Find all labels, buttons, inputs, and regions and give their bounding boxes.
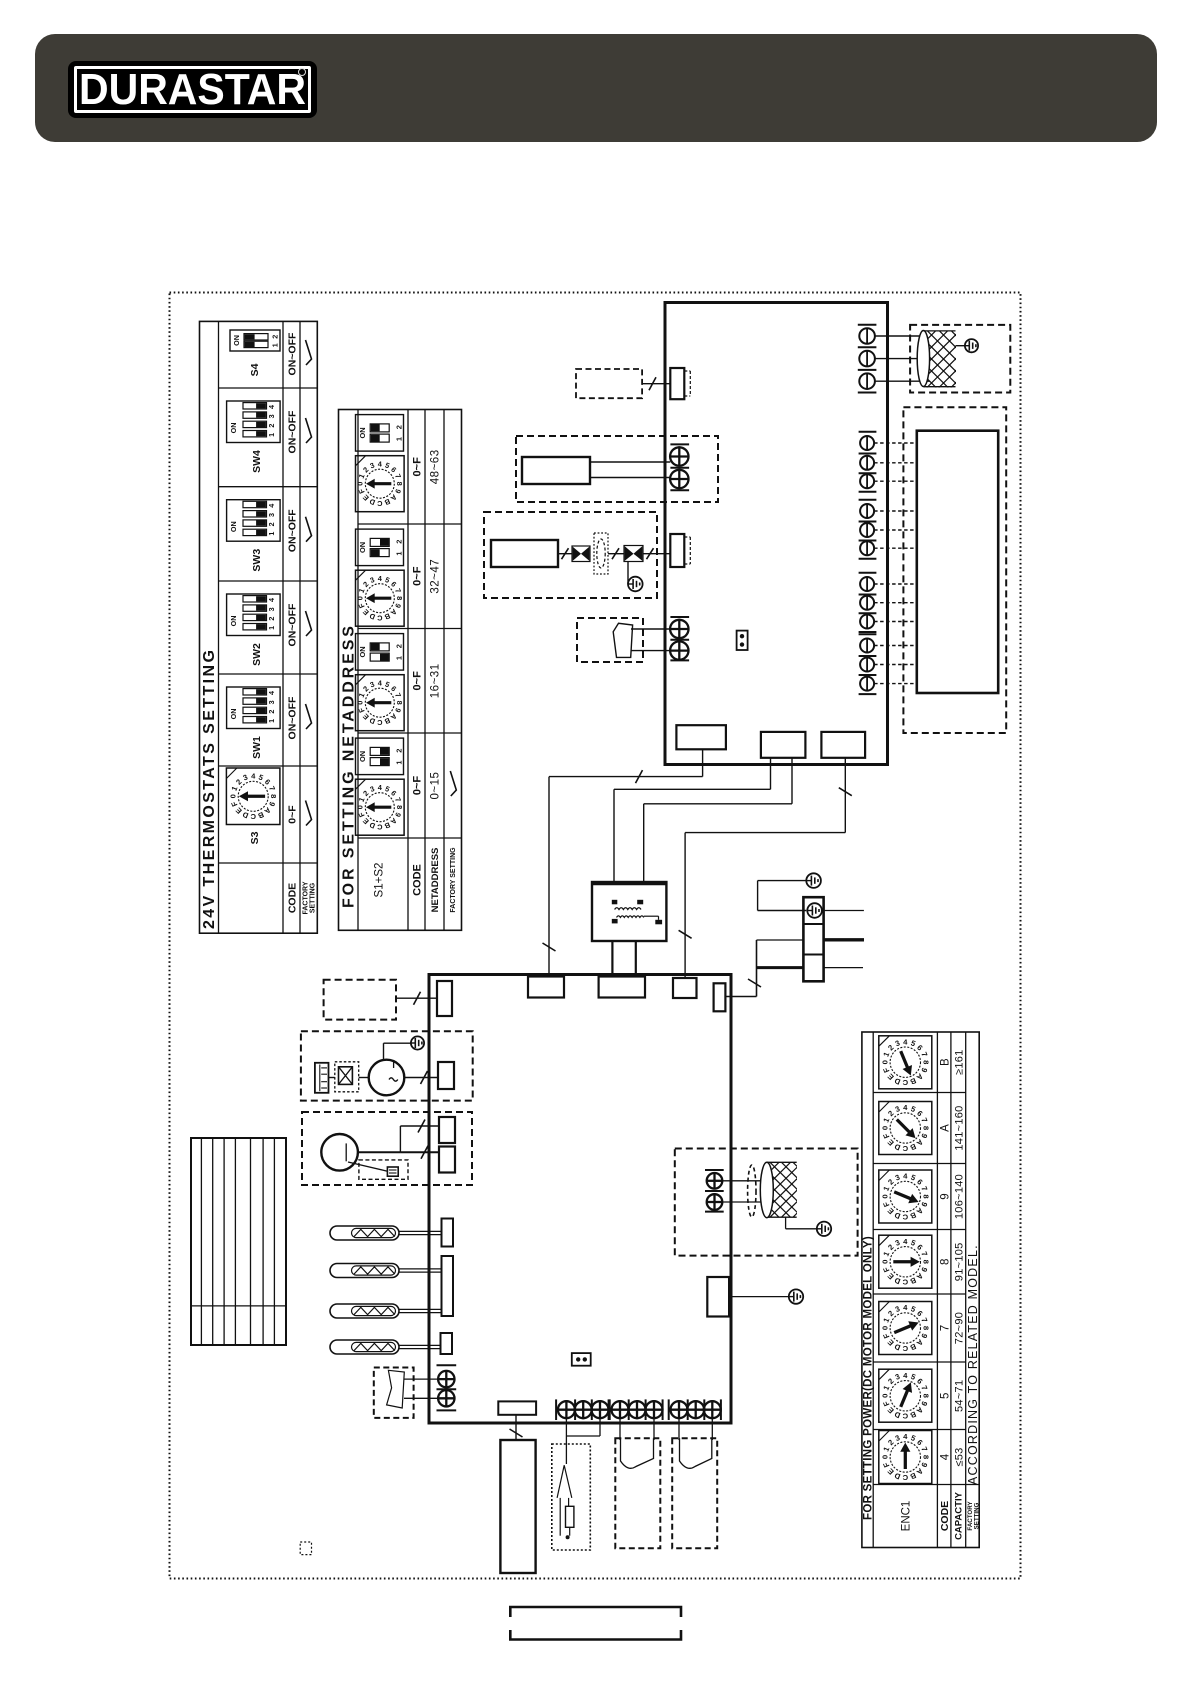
wire (515, 1415, 517, 1440)
svg-text:8: 8 (921, 1194, 930, 1199)
wire to CN1 (642, 383, 670, 385)
svg-text:3: 3 (894, 1372, 901, 1382)
wire W2 (770, 758, 772, 790)
dip switch SW1 (227, 687, 281, 729)
svg-text:8: 8 (921, 1060, 930, 1065)
svg-text:5: 5 (384, 784, 391, 794)
terminal pair (437, 1364, 457, 1366)
svg-text:0: 0 (356, 805, 365, 809)
svg-text:ON: ON (232, 335, 241, 346)
svg-text:8: 8 (395, 701, 404, 705)
svg-text:1: 1 (270, 343, 279, 347)
ground G5 (411, 1036, 424, 1049)
svg-text:CODE: CODE (412, 864, 424, 896)
svg-text:S3: S3 (249, 831, 261, 844)
compressor terminal box (335, 1062, 359, 1092)
svg-text:2: 2 (395, 644, 404, 648)
svg-text:1: 1 (267, 626, 276, 630)
dotted capsule (594, 533, 608, 574)
svg-text:6: 6 (389, 465, 398, 474)
wire with bundle marks (558, 553, 572, 555)
fan ground wire (956, 345, 965, 347)
svg-text:8: 8 (921, 1126, 930, 1131)
rotary switch ENC1 code 7 (879, 1302, 932, 1355)
svg-text:2: 2 (234, 777, 243, 786)
svg-text:S4: S4 (249, 363, 261, 376)
svg-text:2: 2 (886, 1109, 895, 1118)
svg-text:54~71: 54~71 (953, 1380, 965, 1412)
svg-text:C: C (902, 1212, 908, 1221)
wires (404, 1378, 439, 1380)
svg-text:ON: ON (229, 709, 238, 720)
svg-text:F: F (881, 1200, 891, 1208)
svg-text:B: B (908, 1471, 917, 1482)
discharge sensor dashed box (374, 1368, 414, 1418)
outdoor fan dashed box (675, 1149, 858, 1256)
svg-text:7: 7 (919, 1185, 929, 1192)
svg-text:0: 0 (880, 1060, 889, 1064)
svg-text:7: 7 (939, 1325, 951, 1331)
sensor wires group A (565, 1419, 567, 1464)
rotary switch ENC1 code 8 (879, 1235, 932, 1288)
svg-text:3: 3 (894, 1433, 901, 1443)
svg-text:6: 6 (389, 684, 398, 693)
svg-text:6: 6 (915, 1438, 924, 1447)
svg-text:F: F (229, 800, 239, 808)
svg-text:3: 3 (267, 513, 276, 517)
svg-text:7: 7 (393, 473, 403, 480)
indoor fan motor (cylinder) (852, 328, 1059, 391)
svg-text:B: B (908, 1210, 917, 1221)
svg-text:3: 3 (894, 1238, 901, 1248)
svg-text:2: 2 (267, 617, 276, 621)
svg-text:C: C (902, 1473, 908, 1482)
rotary switch S1 for 48~63 (356, 456, 405, 512)
svg-text:CODE: CODE (286, 883, 298, 913)
svg-text:SW4: SW4 (251, 450, 263, 473)
svg-text:1: 1 (267, 719, 276, 723)
svg-text:8: 8 (395, 482, 404, 486)
svg-text:5: 5 (384, 575, 391, 585)
svg-text:ON: ON (358, 646, 367, 657)
cable dashed box (615, 1438, 660, 1548)
PCB2 bottom connector (498, 1401, 536, 1414)
svg-text:B: B (908, 1275, 917, 1286)
svg-text:B: B (383, 497, 391, 507)
svg-text:4: 4 (267, 598, 276, 602)
table: FOR SETTING POWER (ENC1) (862, 1032, 979, 1548)
rotary switch ENC1 code B (879, 1036, 932, 1089)
svg-text:1: 1 (395, 551, 404, 555)
wire (631, 650, 670, 652)
svg-text:3: 3 (369, 680, 376, 690)
svg-text:1: 1 (267, 433, 276, 437)
table: FOR SETTING NETADDRESS (339, 410, 462, 931)
svg-text:0: 0 (880, 1326, 889, 1330)
fan wires (722, 1180, 767, 1182)
wire (608, 553, 624, 555)
svg-text:0: 0 (356, 701, 365, 705)
svg-text:SETTING: SETTING (973, 1502, 980, 1529)
svg-text:0~F: 0~F (412, 566, 424, 586)
svg-text:8: 8 (395, 805, 404, 809)
jumper J1 (737, 631, 748, 650)
svg-text:2: 2 (395, 540, 404, 544)
svg-text:2: 2 (267, 522, 276, 526)
ground G6 (817, 1222, 831, 1236)
header bar (35, 34, 1157, 142)
svg-text:3: 3 (894, 1173, 901, 1183)
connector (438, 1062, 454, 1089)
svg-text:3: 3 (369, 784, 376, 794)
svg-text:0: 0 (356, 482, 365, 486)
svg-text:4: 4 (903, 1371, 908, 1380)
svg-text:6: 6 (263, 777, 272, 786)
svg-text:1: 1 (395, 437, 404, 441)
cable dashed box (672, 1438, 717, 1548)
svg-text:FOR SETTING POWER(DC MOTOR MOD: FOR SETTING POWER(DC MOTOR MODEL ONLY) (863, 1236, 875, 1520)
svg-text:6: 6 (915, 1043, 924, 1052)
svg-text:ON~OFF: ON~OFF (286, 603, 298, 646)
probe (557, 1465, 572, 1498)
svg-text:F: F (881, 1265, 891, 1273)
wires (619, 1419, 621, 1440)
svg-text:0~F: 0~F (286, 805, 298, 824)
svg-text:F: F (881, 1399, 891, 1407)
svg-text:C: C (376, 613, 382, 622)
svg-text:B: B (908, 1342, 917, 1353)
svg-text:8: 8 (921, 1455, 930, 1460)
svg-text:4: 4 (267, 405, 276, 409)
outdoor fan terminals (705, 1169, 724, 1171)
PCB1 indoor control board (665, 303, 888, 765)
svg-text:8: 8 (939, 1259, 951, 1265)
svg-text:48~63: 48~63 (430, 449, 442, 484)
svg-text:ON: ON (229, 423, 238, 434)
PCB2 outdoor control board (429, 975, 731, 1424)
4-way valve dashed box (302, 1112, 472, 1185)
svg-text:0~15: 0~15 (430, 772, 442, 800)
svg-text:1: 1 (395, 760, 404, 764)
svg-text:0: 0 (880, 1194, 889, 1198)
cable flag (680, 1438, 712, 1468)
svg-text:7: 7 (393, 692, 403, 699)
svg-text:7: 7 (919, 1051, 929, 1058)
outer dotted frame (170, 293, 1021, 1579)
svg-text:7: 7 (919, 1445, 929, 1452)
terminal strip block (917, 431, 998, 693)
svg-text:0~F: 0~F (412, 671, 424, 691)
rotary switch ENC1 code 5 (879, 1369, 932, 1422)
svg-text:4: 4 (267, 504, 276, 508)
dip switch S2 for 48~63 (356, 415, 404, 452)
page number brackets (510, 1607, 681, 1617)
DURASTAR logo (68, 61, 317, 118)
svg-text:0: 0 (228, 794, 237, 798)
power terminal block TB (803, 897, 823, 981)
svg-text:B: B (383, 820, 391, 830)
svg-text:16~31: 16~31 (430, 663, 442, 698)
wire (631, 628, 670, 630)
valve wires (358, 1151, 401, 1153)
wire (729, 1296, 789, 1298)
svg-text:1: 1 (267, 532, 276, 536)
dip switch SW3 (227, 500, 281, 542)
svg-text:7: 7 (919, 1116, 929, 1123)
valve V1 (572, 546, 590, 562)
svg-text:6: 6 (915, 1177, 924, 1186)
wire (329, 1077, 335, 1079)
svg-text:3: 3 (267, 700, 276, 704)
svg-text:72~90: 72~90 (953, 1312, 965, 1344)
svg-text:F: F (881, 1332, 891, 1340)
ground G2 (628, 577, 643, 592)
svg-text:B: B (383, 611, 391, 621)
wire (384, 1042, 411, 1044)
wire (590, 461, 670, 463)
svg-text:91~105: 91~105 (953, 1242, 965, 1281)
PCB1 right terminals (859, 432, 917, 694)
jumper J2 (572, 1353, 591, 1366)
svg-text:SW2: SW2 (251, 643, 263, 666)
svg-text:3: 3 (267, 414, 276, 418)
thermistor RT2 (330, 1264, 441, 1278)
wires (678, 1419, 680, 1440)
svg-text:CAPACTIY: CAPACTIY (954, 1491, 965, 1540)
svg-text:6: 6 (915, 1377, 924, 1386)
rotary switch S1 for 32~47 (356, 570, 405, 626)
wire W1 (702, 749, 704, 776)
terminal pair T1/T2 (670, 443, 689, 445)
dashed box valve circuit (484, 512, 657, 598)
svg-text:SW1: SW1 (251, 736, 263, 759)
svg-text:7: 7 (393, 796, 403, 803)
wire to CN2 (643, 553, 670, 555)
svg-text:2: 2 (886, 1243, 895, 1252)
svg-text:ACCORDING TO RELATED MODEL.: ACCORDING TO RELATED MODEL. (966, 1244, 980, 1485)
svg-text:ENC1: ENC1 (900, 1501, 912, 1532)
svg-text:4: 4 (903, 1037, 908, 1046)
svg-text:8: 8 (269, 794, 278, 798)
svg-text:SW3: SW3 (251, 549, 263, 572)
terminal group B (610, 1399, 663, 1420)
rotary switch S1 for 16~31 (356, 675, 405, 731)
wire (590, 477, 670, 479)
svg-text:F: F (881, 1066, 891, 1074)
small dashed box (300, 1542, 311, 1555)
wire W3 (791, 758, 793, 804)
svg-text:4: 4 (939, 1453, 951, 1460)
svg-text:8: 8 (921, 1326, 930, 1331)
svg-text:0: 0 (880, 1126, 889, 1130)
svg-text:106~140: 106~140 (953, 1174, 965, 1219)
wire W4 (844, 758, 846, 833)
terminal strip dashed box (903, 407, 1006, 733)
ground G4 (807, 903, 822, 918)
indoor fan terminals (858, 324, 877, 326)
PCB2 top connectors (528, 977, 564, 998)
compressor motor (369, 1060, 405, 1096)
thermistor RT4 (330, 1340, 441, 1354)
svg-text:0~F: 0~F (412, 457, 424, 477)
svg-text:4: 4 (251, 772, 256, 781)
svg-text:B: B (256, 810, 265, 821)
svg-text:2: 2 (361, 580, 370, 589)
svg-text:5: 5 (939, 1393, 951, 1399)
svg-text:32~47: 32~47 (430, 559, 442, 594)
dip switch S2 for 0~15 (356, 738, 404, 775)
solenoid dashed box (359, 1160, 408, 1179)
terminal group C (669, 1399, 721, 1420)
condenser coil (191, 1138, 286, 1345)
svg-text:1: 1 (395, 656, 404, 660)
svg-text:0: 0 (880, 1455, 889, 1459)
connector CN2 (670, 534, 684, 567)
table: 24V THERMOSTATS SETTING (200, 321, 318, 933)
svg-text:2: 2 (886, 1309, 895, 1318)
svg-text:6: 6 (915, 1243, 924, 1252)
svg-text:8: 8 (921, 1394, 930, 1399)
connectors (439, 1117, 455, 1143)
svg-text:3: 3 (894, 1304, 901, 1314)
svg-text:FACTORY SETTING: FACTORY SETTING (450, 847, 457, 913)
dashed box (comm) (324, 980, 396, 1020)
svg-text:0: 0 (356, 596, 365, 600)
dip switch S4 (230, 330, 280, 351)
dip switch S2 for 16~31 (356, 634, 404, 671)
svg-text:9: 9 (939, 1193, 951, 1199)
compressor plug (315, 1063, 329, 1093)
dip switch SW2 (227, 594, 281, 636)
dip switch S2 for 32~47 (356, 529, 404, 566)
connector CN1 top-left (670, 368, 684, 399)
svg-text:B: B (908, 1142, 917, 1153)
rotary switch ENC1 code A (879, 1102, 932, 1155)
svg-text:4: 4 (378, 678, 383, 687)
svg-text:F: F (881, 1461, 891, 1469)
svg-text:B: B (908, 1409, 917, 1420)
rotary switch S3 (226, 768, 280, 825)
svg-text:ON: ON (358, 542, 367, 553)
svg-text:6: 6 (389, 789, 398, 798)
fan wires (875, 335, 925, 337)
svg-text:F: F (881, 1132, 891, 1140)
svg-text:NETADDRESS: NETADDRESS (430, 848, 441, 913)
svg-text:ON~OFF: ON~OFF (286, 332, 298, 375)
svg-text:6: 6 (915, 1109, 924, 1118)
svg-text:ON: ON (358, 427, 367, 438)
svg-text:≤53: ≤53 (953, 1447, 965, 1466)
svg-text:2: 2 (886, 1177, 895, 1186)
svg-text:ON~OFF: ON~OFF (286, 509, 298, 552)
svg-text:4: 4 (378, 459, 383, 468)
svg-text:8: 8 (395, 596, 404, 600)
svg-text:2: 2 (361, 465, 370, 474)
svg-text:24V THERMOSTATS SETTING: 24V THERMOSTATS SETTING (201, 648, 218, 929)
svg-text:2: 2 (361, 789, 370, 798)
dashed box (room sensor) (576, 369, 642, 398)
thermistor RT1 (330, 1226, 441, 1240)
svg-text:C: C (902, 1078, 908, 1087)
valve coil block (491, 540, 558, 567)
transformer TR1 (592, 882, 666, 977)
svg-text:CODE: CODE (939, 1501, 951, 1531)
svg-text:2: 2 (361, 684, 370, 693)
svg-text:8: 8 (921, 1260, 930, 1265)
fan motor block (522, 457, 590, 484)
svg-text:7: 7 (393, 587, 403, 594)
svg-text:B: B (939, 1058, 951, 1066)
svg-text:2: 2 (267, 424, 276, 428)
svg-text:ON~OFF: ON~OFF (286, 410, 298, 453)
svg-text:SETTING: SETTING (309, 882, 316, 913)
svg-text:≥161: ≥161 (953, 1049, 965, 1075)
4-way valve body (321, 1134, 358, 1171)
svg-text:C: C (376, 822, 382, 831)
svg-text:0~F: 0~F (412, 776, 424, 796)
svg-text:3: 3 (242, 773, 249, 783)
svg-text:C: C (902, 1278, 908, 1287)
svg-text:3: 3 (894, 1038, 901, 1048)
svg-text:ON: ON (229, 616, 238, 627)
svg-text:A: A (939, 1124, 951, 1132)
svg-text:4: 4 (903, 1103, 908, 1112)
svg-text:3: 3 (369, 575, 376, 585)
cable flag (613, 623, 632, 657)
svg-text:7: 7 (267, 785, 277, 792)
dashed box indoor fan motor (516, 436, 718, 502)
ground G1 (965, 339, 978, 352)
thermistor RT3 (330, 1304, 441, 1318)
svg-text:2: 2 (267, 710, 276, 714)
indoor fan dashed box (910, 325, 1010, 393)
svg-text:3: 3 (369, 461, 376, 471)
svg-text:0: 0 (880, 1260, 889, 1264)
rotary switch S1 for 0~15 (356, 779, 405, 835)
svg-text:4: 4 (903, 1237, 908, 1246)
svg-text:2: 2 (886, 1438, 895, 1447)
svg-text:4: 4 (903, 1303, 908, 1312)
svg-text:4: 4 (903, 1432, 908, 1441)
svg-text:2: 2 (270, 335, 279, 339)
power supply block (500, 1440, 535, 1573)
terminal group A (556, 1399, 609, 1420)
connectors on PCB1 bottom (676, 725, 726, 749)
dashed box wired controller (577, 618, 643, 662)
svg-text:7: 7 (919, 1384, 929, 1391)
PCB2 left connector CN (437, 981, 452, 1016)
svg-text:6: 6 (915, 1309, 924, 1318)
outdoor fan motor (698, 1159, 897, 1220)
svg-text:2: 2 (395, 425, 404, 429)
svg-text:2: 2 (395, 749, 404, 753)
ground loop wire (758, 880, 807, 882)
svg-text:C: C (902, 1144, 908, 1153)
cable flag (621, 1438, 654, 1468)
supply wires (824, 910, 864, 912)
svg-text:4: 4 (378, 574, 383, 583)
svg-text:C: C (376, 718, 382, 727)
svg-text:C: C (250, 812, 256, 821)
svg-text:5: 5 (384, 461, 391, 471)
ground wire (627, 562, 629, 585)
svg-text:C: C (902, 1412, 908, 1421)
svg-text:FACTORY: FACTORY (302, 881, 309, 914)
svg-text:B: B (908, 1076, 917, 1087)
dip switch SW4 (227, 401, 281, 443)
svg-text:B: B (383, 716, 391, 726)
connector right edge (707, 1277, 729, 1317)
